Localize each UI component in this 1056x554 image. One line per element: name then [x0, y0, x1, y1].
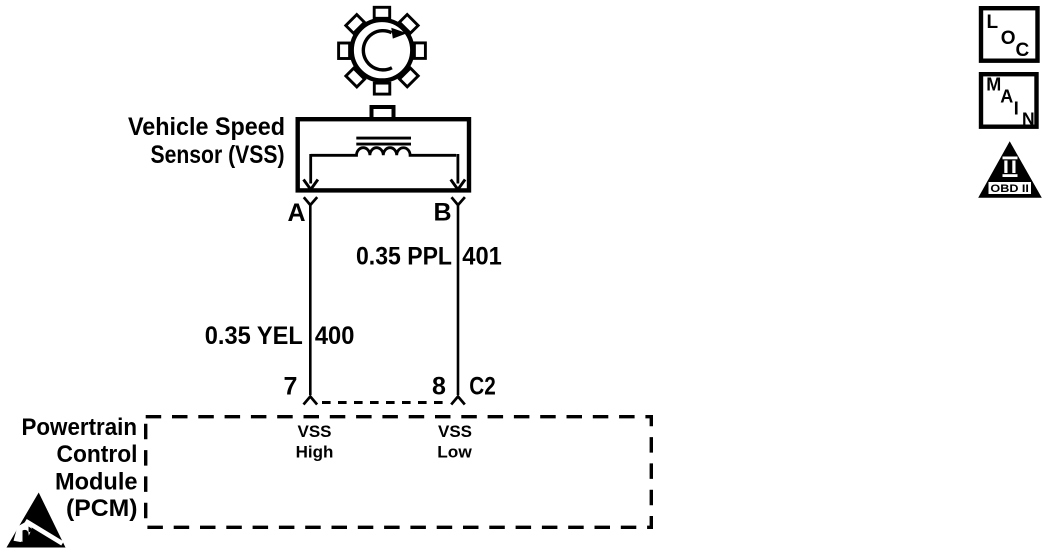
terminal B female fork	[452, 197, 465, 205]
connector label C2	[469, 373, 496, 401]
svg-text:8: 8	[432, 373, 446, 401]
node VSS High	[296, 422, 334, 462]
svg-text:(PCM): (PCM)	[66, 495, 138, 522]
inductor coil winding with leads	[311, 148, 457, 156]
svg-text:A: A	[288, 199, 306, 227]
pin label B	[434, 199, 452, 227]
svg-text:C2: C2	[469, 373, 496, 401]
label Vehicle Speed Sensor (VSS)	[128, 113, 285, 169]
svg-text:Sensor (VSS): Sensor (VSS)	[151, 141, 285, 169]
svg-text:O: O	[1001, 28, 1016, 49]
svg-text:Powertrain: Powertrain	[22, 414, 138, 441]
svg-text:VSS: VSS	[297, 422, 331, 441]
right lead wire with arrow to terminal B	[451, 154, 465, 190]
wire label 400	[315, 322, 355, 350]
pin label 7	[284, 373, 298, 401]
VSS reluctor gear wheel with rotation arrow	[339, 7, 426, 94]
ESD sensitive device symbol	[7, 493, 66, 548]
svg-text:L: L	[987, 12, 999, 33]
terminal A female fork	[304, 197, 317, 205]
MAIN legend box	[981, 74, 1037, 129]
svg-text:Module: Module	[55, 469, 138, 496]
svg-text:A: A	[1000, 87, 1013, 107]
svg-text:N: N	[1022, 109, 1035, 129]
wire B (0.35 PPL 401)	[457, 205, 460, 395]
svg-text:OBD II: OBD II	[990, 183, 1029, 195]
svg-text:Vehicle Speed: Vehicle Speed	[128, 113, 285, 141]
svg-text:C: C	[1016, 40, 1030, 61]
svg-text:401: 401	[462, 243, 502, 271]
svg-text:B: B	[434, 199, 452, 227]
inductor core lines	[356, 138, 411, 144]
VSS sensor box	[298, 119, 469, 190]
svg-text:VSS: VSS	[438, 422, 472, 441]
svg-text:400: 400	[315, 322, 355, 350]
svg-text:0.35 PPL: 0.35 PPL	[356, 243, 452, 271]
wire label 0.35 YEL	[205, 322, 303, 350]
wire label 0.35 PPL	[356, 243, 452, 271]
svg-text:Low: Low	[437, 443, 472, 462]
svg-text:0.35 YEL: 0.35 YEL	[205, 322, 303, 350]
pin label 8	[432, 373, 446, 401]
left lead wire with arrow to terminal A	[304, 154, 318, 190]
LOC legend box	[981, 8, 1038, 61]
OBD II triangle symbol	[978, 141, 1042, 197]
svg-text:I: I	[1014, 99, 1019, 119]
wire A (0.35 YEL 400)	[309, 205, 312, 395]
svg-text:7: 7	[284, 373, 298, 401]
svg-text:M: M	[986, 75, 1001, 95]
pin label A	[288, 199, 306, 227]
svg-text:High: High	[296, 443, 334, 462]
node VSS Low	[437, 422, 472, 462]
dashed connector line C2	[322, 401, 447, 404]
svg-text:Control: Control	[57, 441, 138, 468]
sensor mounting stub	[372, 107, 394, 122]
wire A male terminal fork	[304, 397, 318, 405]
label Powertrain Control Module (PCM)	[22, 414, 138, 522]
wire label 401	[462, 243, 502, 271]
PCM dashed box	[146, 417, 652, 528]
wire B male terminal fork	[451, 397, 465, 405]
